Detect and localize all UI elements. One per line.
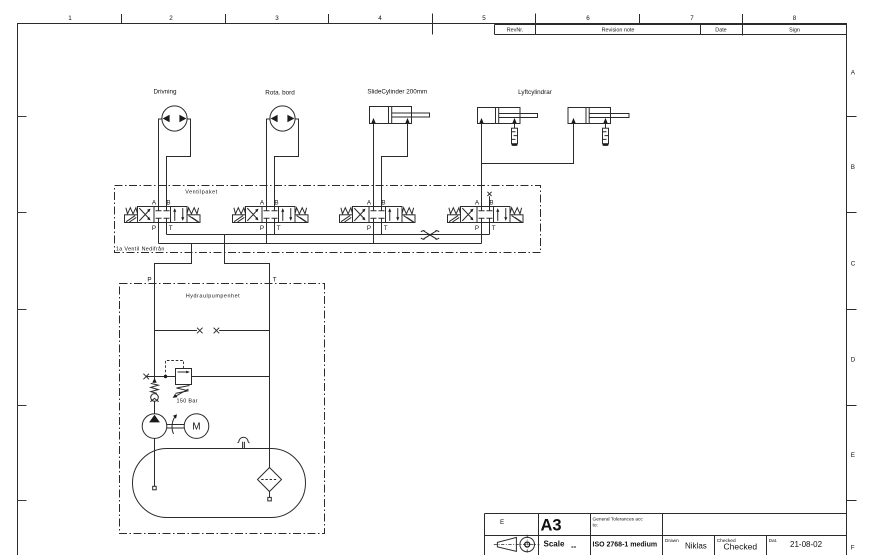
- wire M1 right port to valve V1 B: [167, 119, 191, 207]
- wire check valve to pump: [154, 401, 156, 414]
- svg-text:B: B: [851, 164, 855, 171]
- test line with disconnected couplings: [155, 330, 270, 332]
- pilot check cartridge on C2 rod port: [514, 124, 516, 129]
- svg-text:4: 4: [378, 15, 382, 22]
- relief valve supply tee line with plugged end: [146, 376, 269, 378]
- valve P drop wire: [373, 223, 375, 244]
- svg-text:5: 5: [482, 15, 486, 22]
- svg-text:RevNr.: RevNr.: [507, 28, 523, 34]
- check valve arrow on P line: [152, 378, 156, 383]
- valve P drop wire: [266, 223, 268, 244]
- svg-text:E: E: [500, 519, 504, 526]
- C2 rod port arrow: [512, 118, 516, 123]
- 4/3 directional valve V1 (Drivning): [125, 199, 201, 232]
- svg-text:2: 2: [169, 15, 173, 22]
- wire M1 left port to valve V1 A: [159, 119, 163, 207]
- C3 cap port arrow: [571, 118, 575, 123]
- valve P drop wire: [158, 223, 160, 244]
- shaft rotation arrow: [172, 416, 175, 434]
- return filter F1: [258, 468, 282, 492]
- projection symbol cone: [497, 537, 516, 551]
- svg-text:1a Ventil Nedifrån: 1a Ventil Nedifrån: [116, 246, 165, 253]
- T manifold line: [167, 234, 490, 236]
- valve T drop wire: [489, 223, 491, 235]
- svg-text:General Tolerances acc: General Tolerances acc: [593, 517, 644, 523]
- svg-text:3: 3: [275, 15, 279, 22]
- C3 rod port arrow: [603, 118, 607, 123]
- svg-text:Drivning: Drivning: [153, 89, 177, 96]
- wire valve V4 A to lift cylinders cap ports: [482, 124, 574, 207]
- svg-text:Lyftcylindrar: Lyftcylindrar: [518, 89, 552, 96]
- svg-text:7: 7: [690, 15, 694, 22]
- C1 rod port arrow: [405, 118, 409, 123]
- cylinder C3 (Lyftcylinder 2): [568, 108, 611, 124]
- svg-text:1: 1: [68, 15, 72, 22]
- svg-text:150 Bar: 150 Bar: [177, 398, 198, 404]
- 4/3 directional valve V3 (SlideCylinder): [340, 199, 416, 232]
- junction dot pilot line: [164, 375, 167, 378]
- relief valve adjustment arrow: [176, 389, 189, 396]
- hydraulic motor M2 (Rota. bord): [270, 106, 295, 131]
- valve T drop wire: [274, 223, 276, 235]
- check valve spring: [151, 383, 159, 393]
- svg-text:Hydraulpumpenhet: Hydraulpumpenhet: [186, 294, 240, 300]
- svg-text:Ventilpaket: Ventilpaket: [185, 189, 217, 195]
- revision table: [495, 25, 847, 35]
- wire P manifold down to pump unit: [155, 244, 192, 284]
- svg-text:6: 6: [586, 15, 590, 22]
- svg-text:Sign: Sign: [789, 28, 800, 34]
- crossed-line symbol on T manifold: [421, 231, 439, 240]
- pump-motor shaft: [167, 425, 184, 429]
- zone ruler ticks top: [122, 14, 743, 36]
- svg-text:E: E: [851, 452, 855, 459]
- T return line inside pump unit: [269, 284, 271, 468]
- row ticks right side: [847, 117, 857, 501]
- projection symbol circle: [520, 537, 535, 552]
- hydraulic motor M1 (Drivning): [162, 106, 187, 131]
- valve V4 B plugged port: [489, 196, 491, 206]
- svg-text:Drawn: Drawn: [665, 538, 679, 544]
- filter outlet stub: [269, 492, 271, 498]
- P manifold line: [159, 243, 482, 245]
- wire M2 left port to valve V2 A: [267, 119, 271, 207]
- valve T drop wire: [381, 223, 383, 235]
- svg-text:T: T: [273, 276, 277, 283]
- svg-text:21-08-02: 21-08-02: [790, 540, 823, 549]
- svg-text:Revision note: Revision note: [602, 28, 635, 34]
- svg-text:C: C: [851, 261, 856, 268]
- wire C1 rod port to valve V3 B: [382, 124, 408, 207]
- valve T drop wire: [166, 223, 168, 235]
- svg-text:Niklas: Niklas: [685, 542, 707, 551]
- reservoir tank: [133, 449, 306, 518]
- relief valve pilot dashed line: [166, 361, 184, 375]
- 4/3 directional valve V4 (Lyftcylindrar): [448, 199, 524, 232]
- svg-text:8: 8: [793, 15, 797, 22]
- svg-text:A3: A3: [541, 517, 562, 535]
- suction strainer end: [153, 486, 157, 490]
- svg-text:SlideCylinder 200mm: SlideCylinder 200mm: [367, 89, 427, 96]
- pump suction line: [154, 438, 156, 486]
- svg-text:D: D: [851, 357, 856, 364]
- valve P drop wire: [481, 223, 483, 244]
- wire C1 cap port to valve V3 A: [373, 124, 375, 207]
- relief valve spring: [176, 386, 190, 394]
- title block: [485, 514, 847, 555]
- svg-text:ISO 2768-1 medium: ISO 2768-1 medium: [593, 542, 658, 549]
- wire T manifold down to pump unit: [225, 235, 270, 284]
- svg-text:Scale: Scale: [544, 540, 565, 549]
- row ticks left side: [18, 117, 27, 501]
- svg-text:P: P: [147, 276, 151, 283]
- svg-text:Dat.: Dat.: [769, 538, 778, 544]
- C1 cap port arrow: [371, 118, 375, 123]
- pilot check cartridge on C3 rod port: [605, 124, 607, 129]
- pressure relief valve RV1: [176, 369, 192, 385]
- svg-text:--: --: [571, 542, 577, 551]
- Ventilpaket dashed enclosure: [115, 186, 541, 253]
- svg-text:Date: Date: [715, 28, 726, 34]
- wire M2 right port to valve V2 B: [275, 119, 299, 207]
- Hydraulpumpenhet dashed enclosure: [120, 284, 325, 534]
- svg-text:Checked: Checked: [724, 542, 758, 552]
- electric motor EM1: [184, 414, 209, 439]
- svg-text:to:: to:: [593, 523, 598, 529]
- 4/3 directional valve V2 (Rota. bord): [233, 199, 309, 232]
- check valve ball: [151, 394, 159, 402]
- hydraulic pump P1: [142, 414, 167, 439]
- P pressure line inside pump unit: [154, 284, 156, 379]
- svg-text:Rota. bord: Rota. bord: [265, 89, 295, 96]
- svg-text:F: F: [851, 545, 855, 552]
- breather filler cap: [238, 437, 250, 443]
- cylinder C2 (Lyftcylinder 1): [478, 108, 521, 124]
- C2 cap port arrow: [479, 118, 483, 123]
- svg-text:M: M: [192, 422, 200, 433]
- cylinder C1 (SlideCylinder 200mm): [370, 107, 412, 124]
